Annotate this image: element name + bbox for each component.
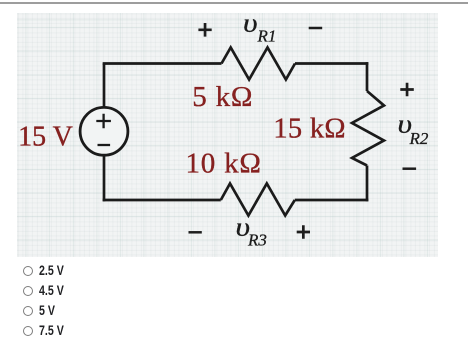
voltage source V1 (15 V)	[80, 107, 128, 155]
svg-text:15 kΩ: 15 kΩ	[273, 114, 346, 145]
answer option: 2.5 V	[22, 266, 24, 278]
svg-text:10 kΩ: 10 kΩ	[185, 147, 261, 179]
polarity − for vR2	[403, 167, 417, 170]
circuit figure grid background	[17, 13, 438, 257]
answer option: 5 V	[22, 306, 24, 318]
svg-text:R2: R2	[409, 129, 429, 148]
polarity − for vR1	[309, 27, 323, 30]
resistor R2	[352, 91, 384, 166]
svg-text:υ: υ	[243, 9, 258, 38]
wire: right vertical top segment	[366, 62, 369, 91]
polarity + for vR2	[400, 83, 414, 97]
wire: bottom horizontal right segment	[295, 199, 369, 202]
svg-text:R1: R1	[257, 27, 277, 46]
wire: left vertical top segment	[103, 64, 106, 109]
polarity − for vR3	[189, 231, 202, 234]
polarity + for vR1	[198, 23, 211, 37]
polarity + for vR3	[297, 225, 310, 239]
svg-text:R3: R3	[247, 231, 267, 250]
answer option: 7.5 V	[22, 326, 24, 338]
resistor R3	[221, 184, 295, 216]
wire: bottom horizontal left segment	[103, 199, 221, 202]
svg-text:15 V: 15 V	[18, 122, 73, 153]
answer option: 4.5 V	[22, 286, 24, 298]
resistor R1	[222, 48, 296, 80]
top divider line	[0, 2, 468, 4]
wire: top horizontal right segment	[295, 62, 368, 65]
svg-text:5 kΩ: 5 kΩ	[192, 81, 253, 113]
wire: top horizontal left segment	[103, 62, 222, 65]
wire: right vertical bottom segment	[366, 166, 369, 202]
wire: left vertical bottom segment	[103, 154, 106, 201]
